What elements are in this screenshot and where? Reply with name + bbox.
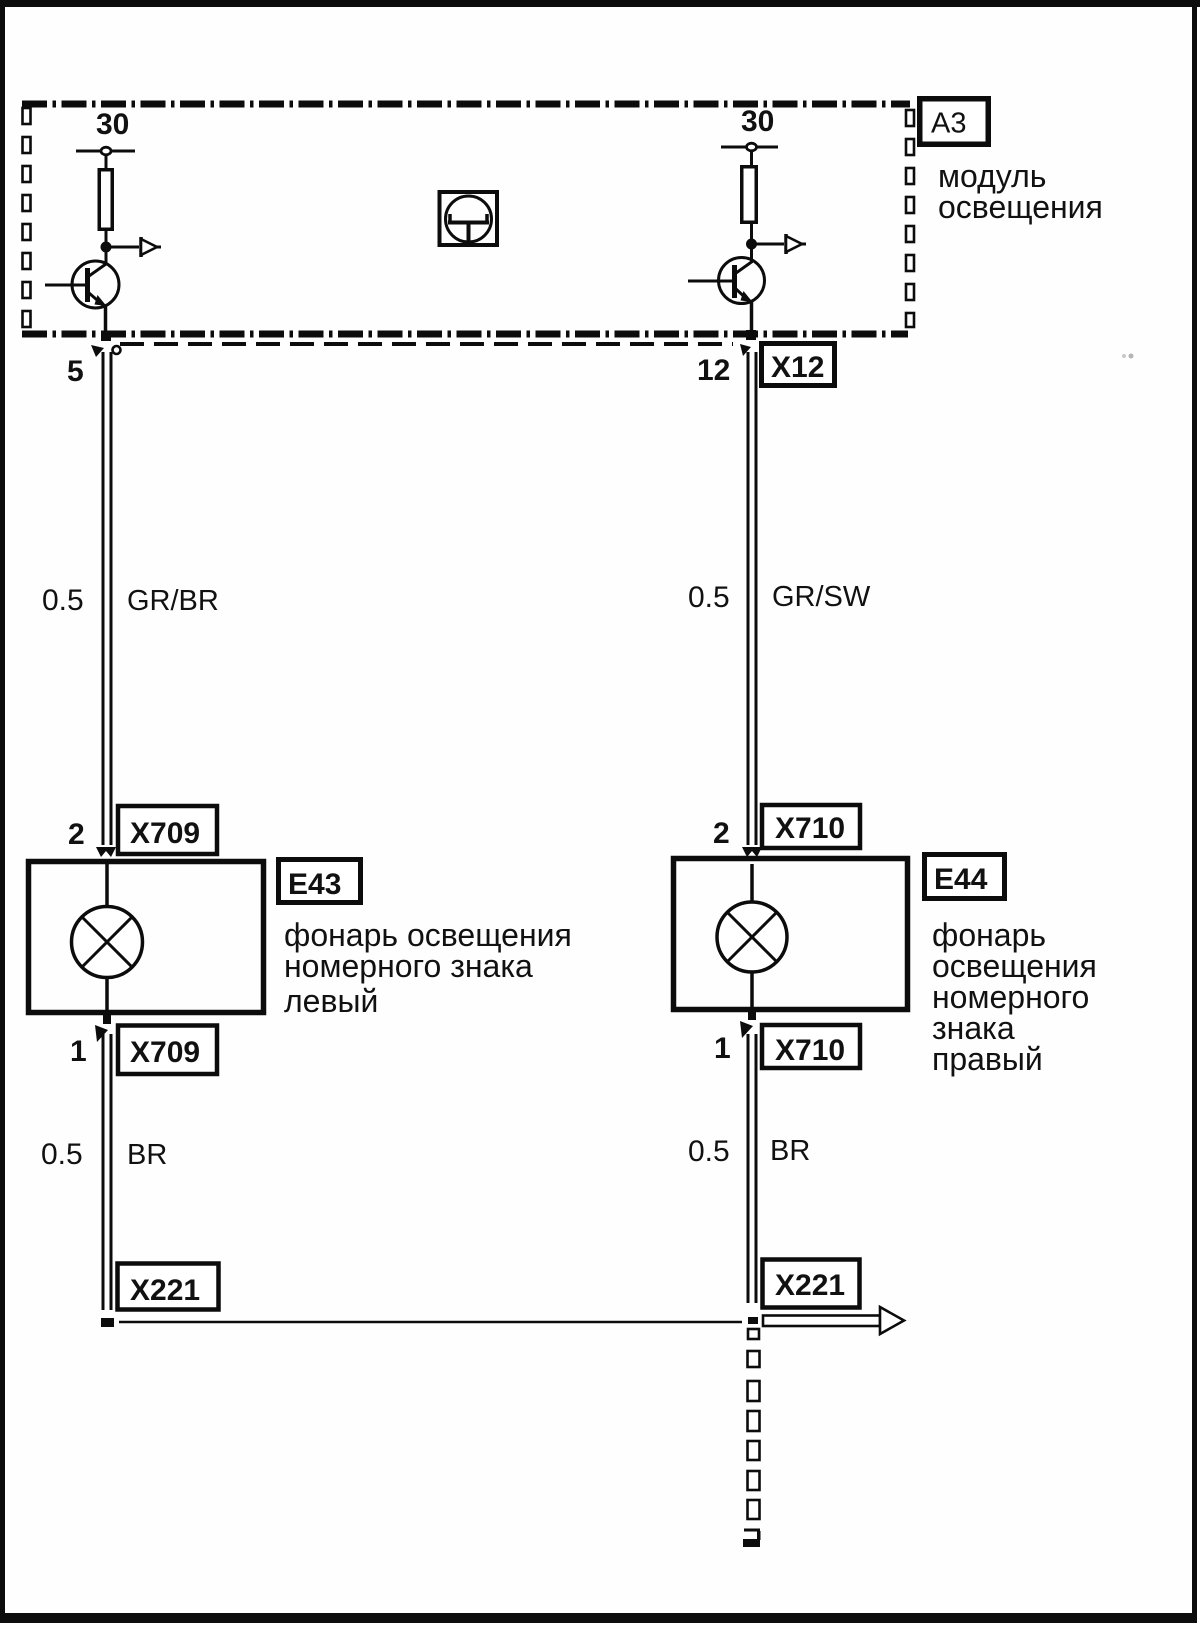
connector hook below lamp E44: [740, 1021, 753, 1038]
transistor left: [45, 247, 119, 340]
wire GR/SW upper right (double line): [747, 352, 750, 845]
dashed continuation line (hollow squares): [748, 1329, 760, 1519]
svg-text:номерного знака: номерного знака: [284, 948, 533, 984]
svg-text:BR: BR: [770, 1135, 810, 1167]
module A3 boundary bottom (dash-dot): [22, 331, 908, 338]
branch arrow left: [106, 237, 161, 257]
wire end terminal left: [101, 1318, 114, 1327]
svg-text:X12: X12: [771, 351, 824, 384]
wire BR lower left (double line): [102, 1034, 105, 1310]
lamp E44 box: [674, 859, 908, 1010]
svg-text:правый: правый: [932, 1041, 1043, 1077]
svg-text:BR: BR: [127, 1139, 167, 1171]
svg-text:GR/BR: GR/BR: [127, 585, 219, 617]
wire resistor to junction right: [750, 224, 753, 240]
connector X709 box bottom: [118, 1026, 217, 1075]
connector X709 box top: [118, 806, 217, 854]
wire crossing blob right: [746, 330, 756, 340]
module icon (transistor in box): [440, 192, 498, 245]
bulb symbol E44: [717, 902, 787, 972]
svg-text:5: 5: [67, 355, 84, 388]
svg-text:A3: A3: [931, 108, 966, 140]
svg-text:левый: левый: [284, 983, 378, 1019]
svg-text:0.5: 0.5: [688, 1135, 730, 1168]
svg-text:X221: X221: [130, 1274, 200, 1307]
lamp E43 exit stub: [103, 1014, 111, 1024]
svg-text:2: 2: [68, 818, 85, 851]
svg-text:30: 30: [96, 108, 129, 141]
connector pin arrow into lamp E43: [96, 847, 116, 857]
connector X710 box top: [762, 805, 860, 848]
svg-text:0.5: 0.5: [41, 1138, 83, 1171]
svg-text:X709: X709: [130, 1036, 200, 1069]
lamp E44 exit stub: [748, 1010, 756, 1020]
connector hook below lamp E43: [95, 1025, 108, 1042]
connector X221 box right: [763, 1260, 860, 1308]
wire crossing blob left: [101, 332, 111, 341]
svg-text:X710: X710: [775, 812, 845, 845]
designator box E43: [279, 860, 361, 903]
connector X221 box left: [118, 1264, 219, 1310]
designator box A3: [920, 99, 989, 145]
lamp E43 box: [29, 862, 264, 1013]
continuation arrow (open): [763, 1307, 904, 1334]
resistor right: [742, 167, 757, 223]
svg-text:30: 30: [741, 105, 774, 138]
terminal 30 symbol right: [721, 143, 778, 166]
transistor right: [688, 248, 765, 340]
scanner noise dots: [1122, 354, 1126, 358]
svg-text:X710: X710: [775, 1034, 845, 1067]
terminal 30 symbol left: [76, 147, 135, 169]
secondary dashed line under module bottom: [120, 342, 733, 346]
branch arrow right: [752, 234, 807, 254]
svg-text:0.5: 0.5: [42, 584, 84, 617]
svg-text:освещения: освещения: [938, 189, 1103, 225]
connector X12 box: [762, 344, 835, 386]
junction dot right: [746, 239, 757, 250]
wire BR lower right (double line): [747, 1034, 750, 1303]
svg-text:12: 12: [697, 354, 730, 387]
wire resistor to junction left: [105, 231, 108, 243]
svg-text:X221: X221: [775, 1269, 845, 1302]
connector X710 box bottom: [762, 1025, 860, 1068]
svg-text:2: 2: [713, 817, 730, 850]
connector hook at module exit right: [740, 344, 751, 356]
continuation line tail mark: [744, 1529, 760, 1532]
connector pin arrow into lamp E44: [742, 847, 762, 857]
junction dot left: [101, 242, 112, 253]
bulb symbol E43: [72, 907, 143, 978]
designator box E44: [925, 855, 1005, 899]
svg-text:X709: X709: [130, 817, 200, 850]
svg-text:E44: E44: [934, 863, 988, 896]
lamp E44 internal wires: [750, 864, 754, 904]
svg-text:GR/SW: GR/SW: [772, 581, 871, 613]
resistor left: [99, 170, 112, 230]
svg-text:0.5: 0.5: [688, 581, 730, 614]
lamp E43 internal wires: [105, 864, 109, 908]
svg-text:E43: E43: [288, 868, 341, 901]
module A3 boundary left (hollow dashes): [23, 108, 31, 327]
connector hooks at module exit left: [91, 345, 104, 357]
svg-text:1: 1: [714, 1032, 731, 1065]
module A3 boundary top (dash-dot): [22, 101, 910, 108]
wire GR/BR upper left (double line): [102, 352, 105, 845]
wire end dash right: [748, 1317, 758, 1324]
module A3 boundary right (hollow dashes): [906, 110, 914, 327]
svg-text:1: 1: [70, 1035, 87, 1068]
ground bus horizontal wire: [119, 1321, 742, 1324]
